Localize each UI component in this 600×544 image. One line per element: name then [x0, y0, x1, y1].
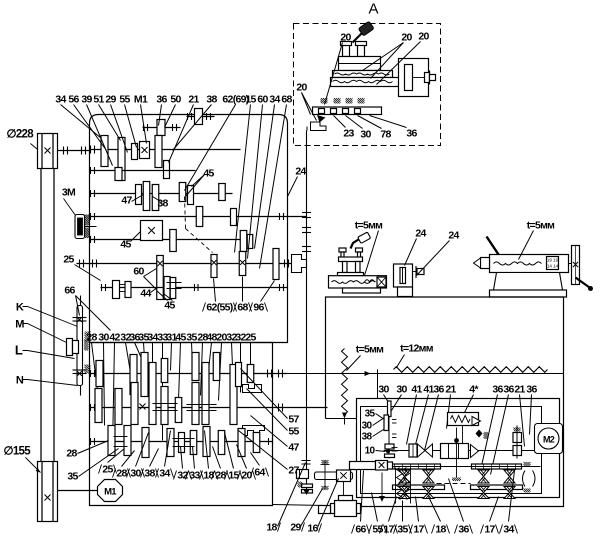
svg-text:t=5мм: t=5мм — [356, 344, 384, 356]
gear VIIg — [170, 278, 176, 299]
box 24 — [394, 264, 425, 287]
tailstock body — [490, 255, 569, 273]
gearbox housing lower — [90, 343, 273, 506]
svg-text:25: 25 — [63, 254, 74, 266]
label 62(55) — [203, 279, 237, 314]
label K — [16, 302, 78, 327]
gear 47a — [143, 182, 150, 211]
svg-text:18: 18 — [435, 524, 446, 536]
vshaft bracket — [297, 470, 309, 479]
svg-text:36: 36 — [406, 128, 417, 140]
feed rod — [273, 373, 564, 375]
svg-text:20: 20 — [401, 32, 412, 44]
shaft P2 to M1 — [58, 490, 100, 492]
label 35 mid — [186, 332, 197, 366]
label 17 fbbottom — [481, 497, 499, 536]
gear L8 shaft X — [238, 429, 245, 457]
gear L3 shaft X — [167, 429, 174, 457]
apron hatch top — [321, 460, 330, 465]
pulley P1 d228 — [38, 134, 58, 169]
gear L7 shaft X — [218, 431, 225, 455]
headstock housing — [90, 115, 288, 343]
svg-text:10: 10 — [365, 446, 376, 457]
label 25 m — [63, 254, 100, 281]
label 38 m — [153, 197, 169, 210]
gear 50 on stub2 — [195, 109, 203, 125]
clutch x IX — [140, 404, 146, 410]
svg-text:24: 24 — [295, 166, 306, 178]
label L — [15, 343, 75, 359]
shaft V — [90, 213, 307, 220]
fb bracket r — [523, 462, 536, 493]
label 66 m — [64, 285, 110, 331]
label 45 c — [120, 232, 140, 251]
label 30 bottom — [127, 433, 149, 480]
gear N5 shaft IX — [192, 383, 199, 425]
svg-text:38: 38 — [362, 432, 373, 443]
svg-text:55: 55 — [119, 94, 130, 106]
tailstock lever — [487, 237, 499, 255]
svg-text:35: 35 — [186, 332, 197, 344]
label 29 b — [290, 489, 322, 534]
chuck — [292, 255, 307, 273]
label 56 top — [68, 94, 106, 151]
label 55 fbbottom — [369, 493, 387, 536]
gear sp long — [157, 256, 164, 300]
label 15 bottom — [225, 433, 243, 482]
label 50 top — [165, 94, 182, 128]
svg-text:50: 50 — [170, 94, 181, 106]
svg-text:M: M — [15, 319, 24, 331]
svg-text:47: 47 — [121, 195, 132, 207]
label 20 mid — [216, 332, 227, 401]
label 48 mid — [206, 332, 217, 371]
apron vert line — [324, 461, 326, 489]
fb bowtie mid — [409, 444, 433, 457]
A label 20L — [296, 82, 316, 121]
svg-text:78: 78 — [380, 129, 391, 141]
A toolpost body — [339, 57, 381, 71]
svg-text:М2: М2 — [543, 435, 555, 445]
shaft X — [90, 438, 273, 445]
A right bracket — [399, 59, 436, 97]
label A — [369, 1, 379, 18]
label 4* feedtop — [463, 384, 480, 417]
spindle — [77, 260, 292, 268]
label 34 mid — [147, 332, 158, 409]
label 32 mid — [235, 332, 246, 393]
vertical shaft — [302, 127, 311, 495]
label 21 top — [169, 94, 200, 163]
A label 30 — [346, 116, 372, 141]
svg-text:34: 34 — [159, 468, 170, 480]
label 41 feedtop — [415, 384, 435, 449]
clutch 45 box — [141, 221, 163, 241]
gear VIIf — [164, 277, 170, 300]
gear VIId — [113, 281, 120, 299]
A label 20a — [325, 32, 352, 105]
label 25 bottom — [99, 449, 125, 476]
svg-text:15: 15 — [245, 94, 256, 106]
fb label 35 — [365, 409, 385, 420]
svg-text:38: 38 — [206, 94, 217, 106]
gear 45c — [219, 184, 226, 201]
svg-text:36: 36 — [503, 384, 514, 396]
label 35 fbbottom — [394, 501, 412, 536]
fb lower shaft — [353, 466, 541, 468]
label 51 top — [93, 94, 120, 141]
svg-text:34: 34 — [503, 524, 514, 536]
fb thin bar 1 — [391, 464, 441, 469]
coupling X a — [114, 437, 128, 447]
svg-text:45: 45 — [203, 168, 214, 180]
svg-text:А: А — [369, 1, 379, 18]
svg-text:30: 30 — [98, 332, 109, 344]
svg-text:47: 47 — [288, 442, 299, 454]
svg-text:19 19: 19 19 — [547, 258, 559, 263]
label 68 d — [234, 277, 252, 314]
A slide wavy — [333, 71, 393, 78]
label 36 feedtop — [425, 384, 445, 451]
svg-text:96: 96 — [253, 302, 264, 314]
vshaft ticks — [302, 461, 311, 465]
label 21 feedtop — [445, 384, 456, 429]
tailstock base — [490, 273, 567, 298]
label 18 b — [266, 463, 305, 534]
gear 45b — [188, 186, 194, 205]
fb sleeve mid — [441, 444, 479, 459]
svg-text:t=12мм: t=12мм — [400, 343, 434, 355]
svg-text:45: 45 — [175, 332, 186, 344]
A label 20c — [377, 31, 430, 85]
shaft IV — [90, 190, 233, 197]
fb bowtie a2 — [399, 487, 410, 499]
gear L4 shaft X — [179, 433, 185, 453]
carr bolt 1 — [339, 248, 346, 262]
fb worm bar — [350, 461, 393, 471]
gear N1 shaft IX — [115, 389, 122, 425]
label 28 mid — [197, 332, 208, 396]
label 55 right — [247, 389, 300, 438]
label 36 feedtop — [481, 384, 504, 471]
coupling IX a — [153, 404, 178, 411]
clutch 3M — [75, 215, 97, 239]
svg-text:28: 28 — [116, 468, 127, 480]
carr base plate — [338, 273, 364, 276]
svg-text:36: 36 — [433, 384, 444, 396]
svg-text:М1: М1 — [134, 94, 148, 106]
label 57 right — [241, 369, 300, 426]
leadscrew wavy t12 — [394, 367, 548, 373]
fb dot — [452, 428, 461, 482]
A toolpost lever — [353, 21, 375, 42]
gear T7 shaft VIII — [213, 353, 220, 381]
label 28 bottom — [212, 447, 230, 482]
spindle right bearing — [285, 260, 289, 268]
gear L6 shaft X — [203, 427, 210, 457]
gear 34a — [101, 136, 108, 167]
gear N2 shaft IX — [131, 383, 138, 425]
A platform — [331, 78, 401, 87]
label d155 — [4, 446, 41, 473]
fb label 38 — [362, 430, 384, 443]
shaft III — [90, 167, 196, 174]
gear L5 shaft X — [190, 431, 197, 455]
svg-text:36: 36 — [458, 524, 469, 536]
label 34 top — [55, 94, 101, 139]
shaft KMLN — [80, 296, 82, 396]
gear L9 shaft X — [253, 433, 260, 453]
gear L0 shaft X — [108, 426, 115, 456]
fb right stack — [513, 426, 522, 459]
svg-text:23: 23 — [343, 128, 354, 140]
label d228 — [7, 129, 44, 155]
shaft II — [90, 146, 241, 154]
sleeve KN — [73, 306, 87, 386]
gear T5 shaft VIII — [192, 353, 199, 381]
A label 23 — [334, 116, 355, 140]
norton step 1 — [243, 385, 262, 393]
fb bar low left — [393, 485, 445, 490]
belt — [41, 169, 54, 462]
svg-text:30: 30 — [396, 384, 407, 396]
svg-text:L: L — [15, 343, 23, 358]
label 45 mid — [175, 332, 186, 401]
label 45 u — [186, 168, 215, 197]
arrow on feedrod — [365, 370, 378, 431]
svg-text:16: 16 — [307, 523, 318, 535]
A label 20b — [363, 32, 413, 79]
gear VIc — [247, 235, 253, 249]
shaft VII — [101, 284, 288, 291]
fb mid shaft — [384, 450, 537, 452]
svg-text:68: 68 — [237, 302, 248, 314]
label t5 rods — [347, 344, 385, 371]
svg-text:45: 45 — [164, 300, 175, 312]
label 39 top — [81, 94, 112, 166]
label 32 bottom — [174, 447, 192, 482]
gear sp4 — [239, 252, 246, 276]
label &#1052;1 top — [134, 94, 148, 144]
svg-text:t=5мм: t=5мм — [527, 220, 555, 232]
gear L1 shaft X — [124, 426, 131, 456]
svg-text:55: 55 — [288, 426, 299, 438]
gear 56a — [155, 136, 162, 168]
svg-text:15: 15 — [228, 470, 239, 482]
gear 51a — [118, 138, 125, 181]
overhead stub 2 — [187, 113, 215, 120]
label 17 fbbottom — [410, 497, 428, 536]
svg-text:39: 39 — [81, 94, 92, 106]
label 30 feedtop — [392, 384, 408, 411]
gear VIb — [240, 231, 247, 252]
svg-text:34: 34 — [269, 94, 280, 106]
label 35 mid — [138, 332, 149, 391]
fb bowtie c — [478, 470, 489, 483]
fb spring box — [448, 413, 481, 426]
label 28 bl — [66, 441, 108, 460]
svg-text:45: 45 — [120, 239, 131, 251]
fb spring link — [463, 426, 489, 444]
svg-text:33: 33 — [189, 470, 200, 482]
svg-text:38: 38 — [144, 468, 155, 480]
label 16 b — [307, 479, 338, 535]
carr pedestal — [343, 288, 381, 293]
svg-text:25: 25 — [245, 332, 256, 344]
clutch M half — [67, 339, 79, 356]
svg-text:66: 66 — [64, 285, 75, 297]
norton step 2 — [243, 426, 265, 436]
svg-text:20: 20 — [418, 31, 429, 43]
gear Va — [196, 207, 203, 227]
fb bowtie d2 — [504, 487, 515, 499]
gear 38a — [136, 185, 142, 205]
fb bowtie d — [504, 470, 515, 483]
feed box — [357, 399, 560, 498]
A left item — [311, 115, 327, 131]
label 38 top — [173, 94, 218, 151]
shaft II top stub — [143, 124, 181, 131]
svg-text:60: 60 — [257, 94, 268, 106]
svg-text:30: 30 — [130, 468, 141, 480]
A label 78 — [358, 116, 392, 141]
svg-text:56: 56 — [68, 94, 79, 106]
dashed drive line — [185, 197, 213, 253]
A bar — [313, 107, 382, 115]
label 24 b — [417, 230, 460, 276]
label 47 m — [121, 195, 143, 207]
label 66 fbbottom — [352, 471, 370, 536]
gear L2 shaft X — [142, 428, 149, 458]
gear N4 shaft IX — [175, 398, 182, 423]
label 60 m — [133, 266, 156, 290]
gear T1 shaft VIII — [130, 355, 137, 395]
fb label 30 — [362, 418, 385, 432]
svg-text:17: 17 — [413, 524, 424, 536]
label 31 mid — [166, 332, 177, 371]
gear T0 shaft VIII — [96, 361, 103, 387]
gear 45a — [179, 183, 186, 202]
bed bottom left — [326, 506, 357, 508]
label M — [15, 319, 66, 343]
apron body — [319, 496, 361, 517]
bed outline — [326, 297, 564, 507]
label N — [16, 375, 78, 387]
svg-text:18: 18 — [266, 522, 277, 534]
fb worm drop — [379, 473, 385, 502]
svg-text:K: K — [16, 302, 24, 314]
bearing hatch lower box — [85, 332, 91, 374]
gear T8 shaft VIII — [230, 365, 237, 425]
label 34 fbbottom — [500, 471, 518, 536]
svg-text:42: 42 — [109, 332, 120, 344]
gear 29a — [132, 144, 138, 160]
label t5 tailstock — [519, 220, 556, 260]
svg-text:28: 28 — [86, 332, 97, 344]
svg-text:14 14: 14 14 — [547, 264, 559, 269]
label 96 d — [250, 281, 275, 314]
gear T10 shaft VIII — [247, 365, 254, 383]
svg-text:35: 35 — [365, 409, 376, 420]
pulley P2 d155 — [38, 462, 58, 522]
gear 36 on stub — [157, 120, 165, 136]
svg-text:41: 41 — [411, 384, 422, 396]
label t5 carriage — [355, 220, 383, 276]
svg-text:57: 57 — [288, 414, 299, 426]
svg-text:35: 35 — [67, 471, 78, 483]
shaft VIII — [90, 370, 288, 378]
A bolt 2 — [356, 42, 367, 57]
svg-text:60: 60 — [133, 266, 144, 278]
label 28 bottom — [113, 451, 135, 480]
label 36 feedtop — [526, 384, 537, 435]
svg-text:64: 64 — [254, 467, 265, 479]
label 36 feedtop — [491, 384, 515, 475]
label 36 fbbottom — [449, 479, 473, 536]
label 21 feedtop — [514, 384, 525, 447]
label 64 bottom — [251, 453, 269, 479]
svg-text:36: 36 — [526, 384, 537, 396]
svg-text:30: 30 — [360, 129, 371, 141]
fb bowtie c2 — [478, 487, 489, 499]
label 38 bottom — [141, 449, 159, 480]
fb bowtie a — [399, 470, 410, 483]
gear sp3 — [211, 255, 217, 278]
fb bar low right — [437, 484, 523, 490]
tailstock quill — [474, 258, 490, 269]
label 47 right — [251, 416, 300, 454]
clutch M1f — [140, 142, 150, 159]
svg-text:35: 35 — [397, 524, 408, 536]
carr bolt 2 — [356, 248, 363, 262]
carr plate — [339, 257, 363, 262]
fb safety clutch — [396, 468, 411, 504]
label 24 u — [288, 166, 307, 197]
carr legs — [343, 262, 361, 273]
svg-text:24: 24 — [415, 228, 426, 240]
svg-text:17: 17 — [383, 524, 394, 536]
label 30 feedtop — [378, 384, 389, 403]
fb bowtie b2 — [423, 487, 434, 499]
A label 36 — [370, 116, 418, 140]
gear VIa — [170, 230, 177, 252]
fb left stack — [384, 401, 398, 459]
label 60 top — [248, 94, 269, 259]
A bolt 1 — [341, 42, 352, 57]
label 20 bottom — [237, 445, 256, 482]
gear VIIe — [125, 282, 131, 298]
box24 foot — [398, 287, 413, 297]
svg-text:М1: М1 — [104, 487, 117, 498]
svg-text:36: 36 — [492, 384, 503, 396]
svg-text:24: 24 — [448, 230, 459, 242]
motor M2 — [535, 424, 563, 454]
svg-text:30: 30 — [378, 384, 389, 396]
fb thin bar 2 — [472, 464, 522, 469]
apron bar — [315, 470, 353, 499]
coupling VII bars — [167, 283, 199, 292]
svg-text:51: 51 — [93, 94, 104, 106]
label 41 feedtop — [407, 384, 423, 445]
label 30 mid — [98, 332, 109, 426]
label 18 fbbottom — [429, 497, 450, 536]
svg-text:66: 66 — [355, 524, 366, 536]
motor M1 — [98, 480, 123, 502]
label 28 mid — [86, 332, 98, 399]
shaft VI — [90, 236, 253, 243]
label 17 fbbottom — [380, 497, 398, 536]
svg-text:34: 34 — [55, 94, 66, 106]
